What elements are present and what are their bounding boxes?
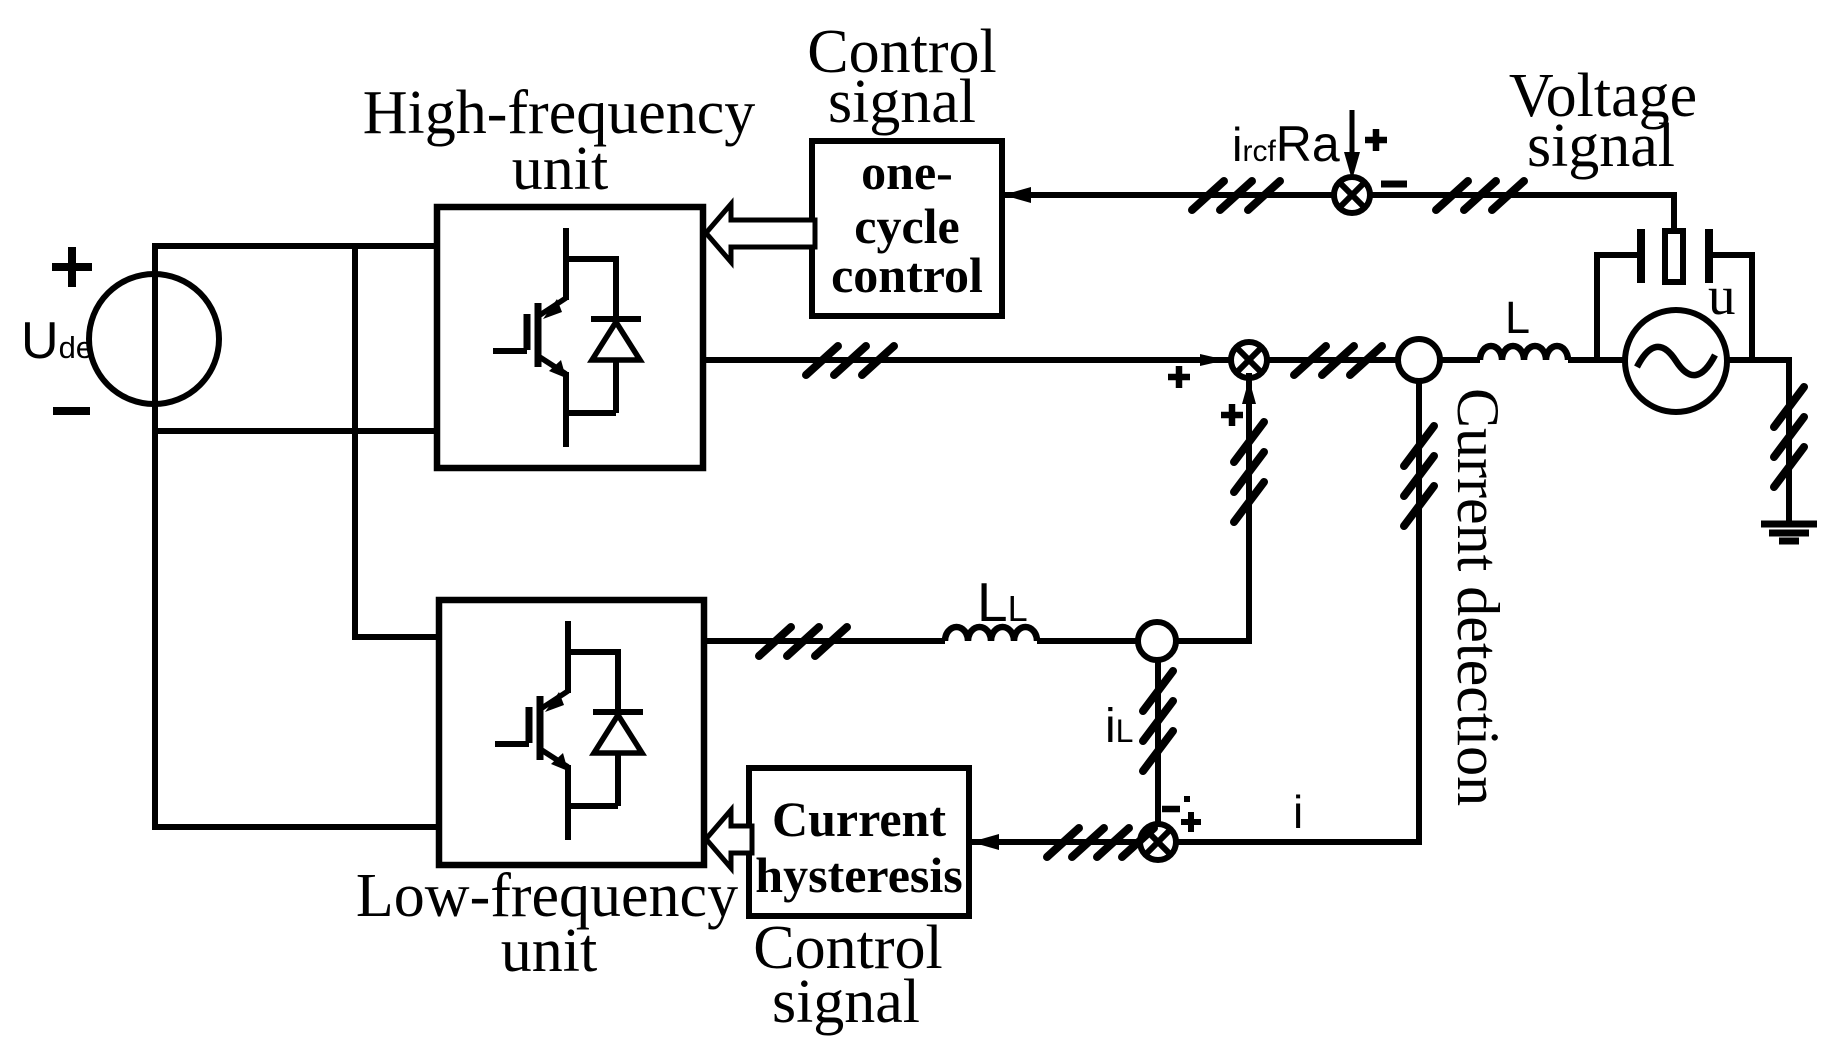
sine wave inside u — [1637, 347, 1715, 375]
svg-text:cycle: cycle — [854, 198, 959, 254]
wire: high-frequency unit output — [703, 357, 1480, 363]
plus sign on low-frequency feed — [1221, 404, 1243, 426]
svg-text:Current: Current — [772, 791, 946, 847]
wire: top horizontal Udc+ to high-frequency unit — [153, 243, 440, 249]
svg-text:i: i — [1293, 786, 1303, 838]
minus sign at Udc — [53, 407, 90, 415]
minus sign right of voltage summing node — [1381, 181, 1407, 188]
sensing element rectangle — [1665, 231, 1683, 282]
svg-text:signal: signal — [1527, 112, 1675, 180]
one-cycle control box — [812, 141, 1002, 316]
plus sign at ircf·Ra arrow — [1365, 129, 1387, 151]
current sensor on LL line — [1138, 622, 1176, 660]
arrowhead before summing node — [1200, 354, 1226, 366]
slashes on hysteresis input wire — [1047, 828, 1154, 857]
svg-text:u: u — [1708, 265, 1736, 326]
hollow control-signal arrow into low-frequency unit — [706, 810, 752, 868]
IGBT module inside low-frequency unit — [495, 621, 643, 840]
wire: LL inductor to corner — [1037, 638, 1252, 644]
wire: i feedback into hysteresis node — [1176, 839, 1419, 845]
wire: current detection drop — [1176, 379, 1419, 842]
wire: voltage signal feed to summing node — [1352, 192, 1674, 198]
svg-text:signal: signal — [828, 68, 976, 136]
svg-text:signal: signal — [772, 968, 920, 1036]
AC source u circle — [1625, 310, 1727, 412]
svg-text:control: control — [831, 247, 983, 303]
capacitor left plate — [1637, 229, 1645, 283]
wire: ground branch vertical — [1786, 358, 1792, 524]
wire: u to ground branch — [1723, 357, 1792, 363]
slashes on LL wire — [759, 627, 847, 656]
svg-text:one-: one- — [861, 144, 953, 200]
wire: divider left leg — [1597, 255, 1641, 362]
current hysteresis box — [749, 768, 969, 916]
svg-text:L: L — [1505, 292, 1530, 343]
wire: inductor L to voltage source u — [1568, 357, 1630, 363]
hollow control-signal arrow into high-frequency unit — [706, 204, 815, 262]
slashes between node and current sensor — [1294, 346, 1382, 375]
ground symbol — [1761, 524, 1817, 541]
arrowhead into one-cycle control — [1003, 187, 1031, 203]
current sensor (current detection) on AC line — [1398, 339, 1440, 381]
svg-text:hysteresis: hysteresis — [755, 847, 962, 903]
wire: hysteresis node to current hysteresis box — [972, 839, 1140, 845]
summing node (main line) — [1231, 342, 1267, 378]
summing node (voltage loop) — [1334, 177, 1370, 213]
minus sign above hysteresis node — [1162, 806, 1180, 813]
hysteresis summing node — [1140, 824, 1176, 860]
wire: horizontal into low-frequency unit (top) — [353, 634, 442, 640]
arrowhead into current hysteresis box — [971, 834, 999, 850]
wire: bottom horizontal into low-frequency unit — [153, 824, 442, 830]
wire: divider right leg — [1709, 255, 1752, 362]
inductor LL — [945, 627, 1037, 641]
slashes on low-frequency feed — [1234, 422, 1264, 522]
wire: iL drop to hysteresis summing node — [1155, 660, 1161, 827]
svg-text:Current detection: Current detection — [1445, 388, 1511, 806]
slashes on ground branch — [1774, 387, 1804, 487]
up arrowhead below main summing node — [1242, 379, 1256, 404]
wire: lower horizontal into high-frequency unit — [153, 428, 440, 434]
voltage source Udc circle — [89, 274, 219, 404]
signal slashes (left of node) — [1192, 181, 1280, 210]
wire: left vertical bus from Udc — [152, 243, 158, 830]
svg-text:unit: unit — [501, 917, 597, 985]
plus sign at Udc — [52, 247, 92, 287]
slashes on HF output wire — [806, 346, 894, 375]
low-frequency unit box — [439, 600, 704, 865]
IGBT module inside high-frequency unit — [493, 228, 641, 447]
slashes on current detection drop — [1404, 426, 1434, 526]
slashes on iL drop — [1143, 671, 1173, 771]
wire: drop into voltage divider — [1671, 192, 1677, 234]
signal slashes (right of node) — [1436, 181, 1524, 210]
wire: second vertical bus — [352, 243, 358, 640]
ircf·Ra injection arrow — [1344, 110, 1360, 180]
plus sign left of main summing node — [1168, 366, 1190, 388]
svg-text:unit: unit — [512, 135, 608, 203]
high-frequency unit box — [437, 207, 703, 468]
capacitor right plate — [1705, 229, 1713, 283]
wire: low-frequency feed up to main summing node — [1246, 373, 1252, 641]
plus sign right of hysteresis node — [1181, 812, 1201, 832]
dot mark near hysteresis node — [1184, 796, 1190, 802]
inductor L — [1480, 346, 1568, 360]
wire: low-frequency unit output — [704, 638, 945, 644]
wire: summing node to one-cycle control — [1002, 192, 1352, 198]
